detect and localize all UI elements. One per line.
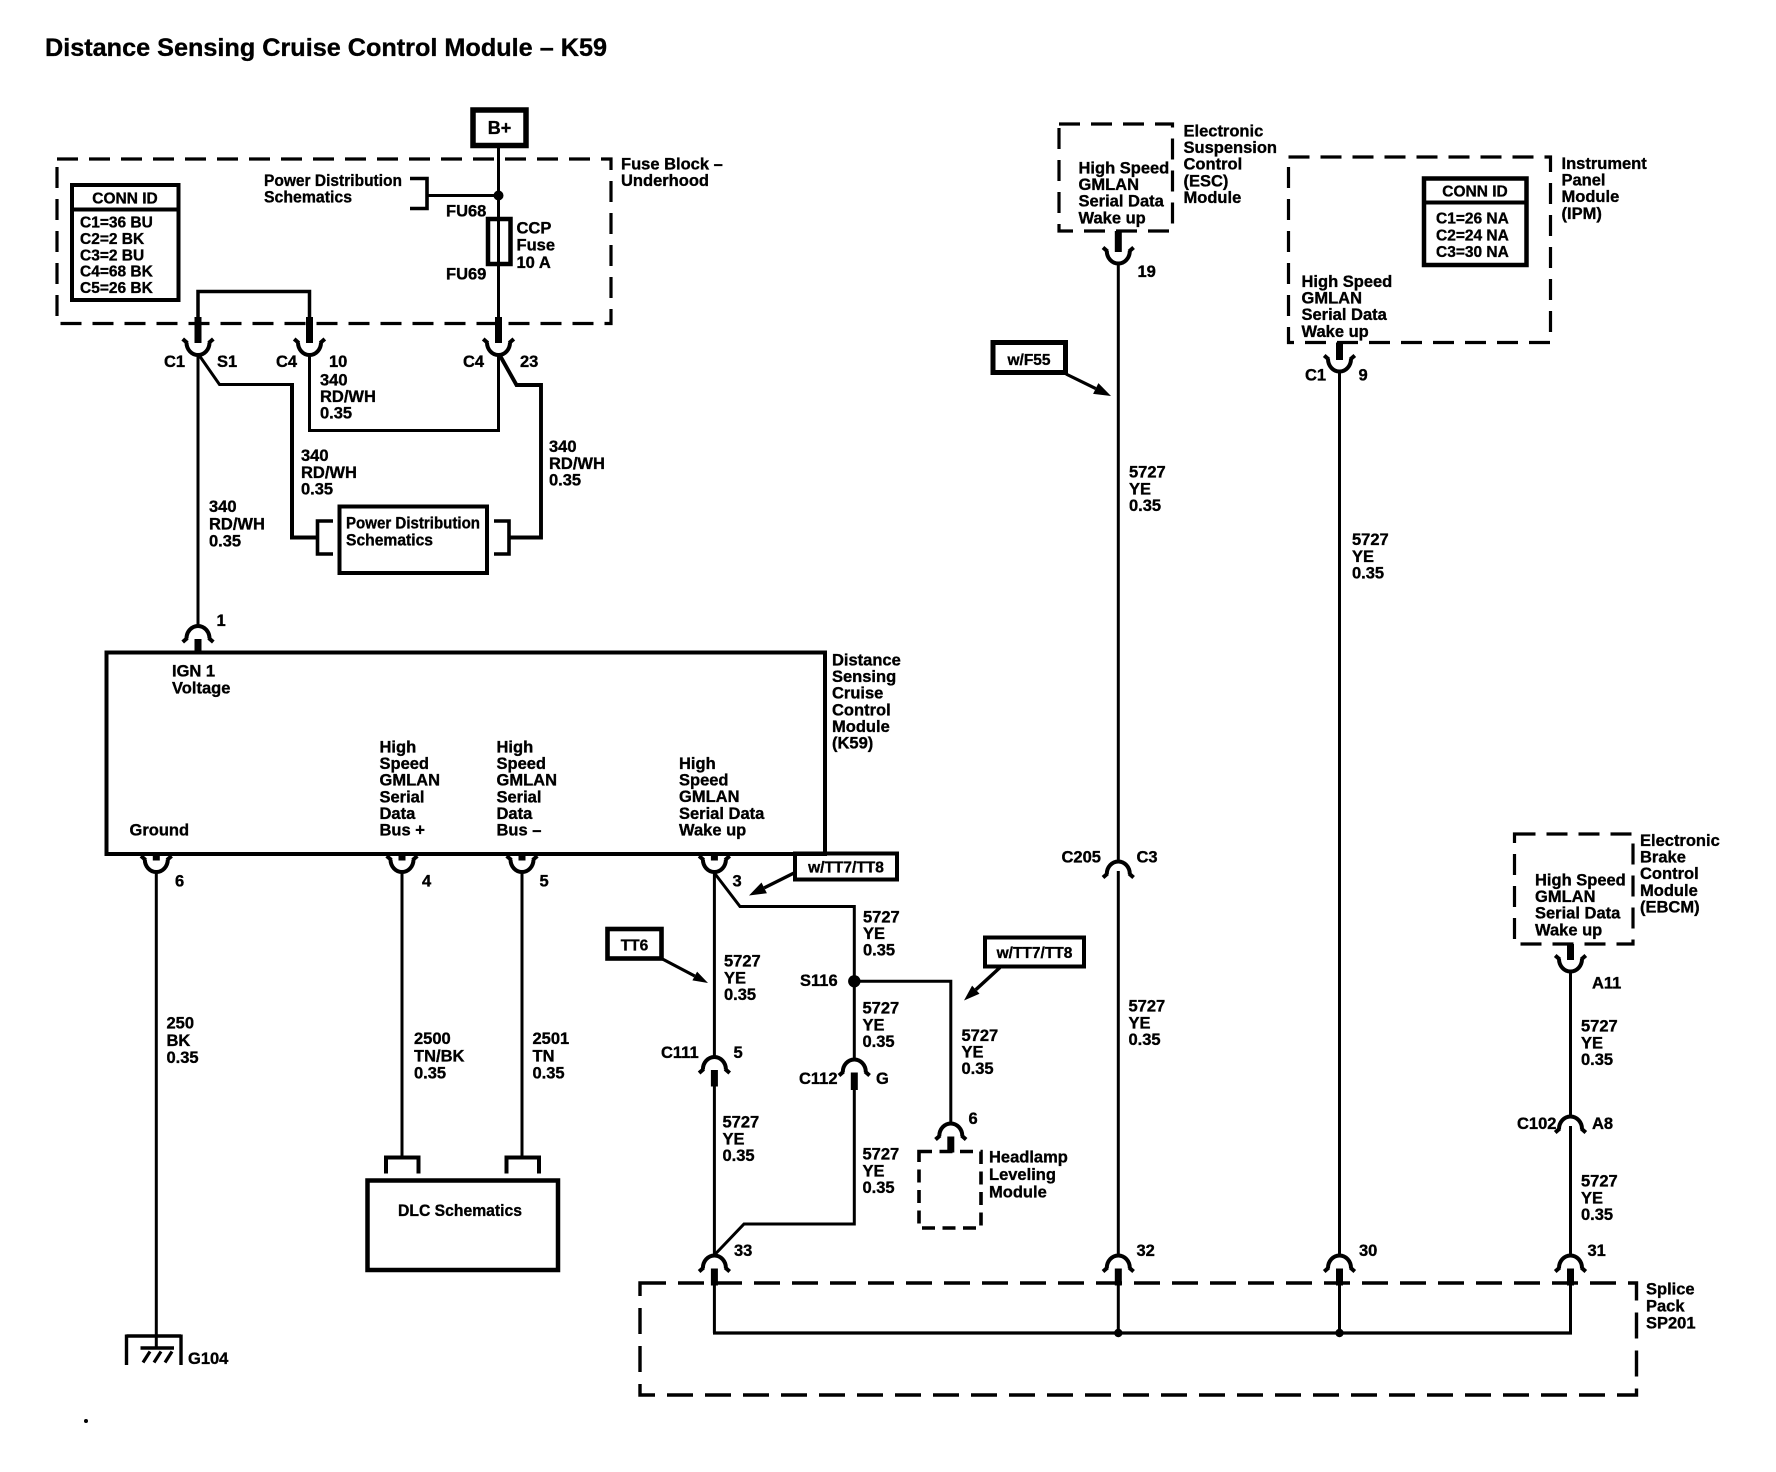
wire label 5727 YE 0.35 (below C102) [1581, 1173, 1618, 1225]
wire S116 to C112 [853, 981, 856, 1060]
svg-text:YE: YE [1129, 1014, 1151, 1032]
svg-text:High: High [679, 755, 716, 773]
svg-text:Bus +: Bus + [380, 822, 425, 840]
wire C1 to pin 1 [197, 356, 200, 628]
svg-text:Wake up: Wake up [1535, 921, 1602, 939]
stray mark [84, 1419, 88, 1423]
pin 1 connector [183, 612, 226, 652]
EBCM pin A11 connector [1555, 944, 1621, 993]
svg-text:A8: A8 [1592, 1115, 1613, 1133]
svg-text:YE: YE [1581, 1034, 1603, 1052]
pin 5 connector [507, 854, 549, 891]
svg-text:Voltage: Voltage [172, 680, 230, 698]
svg-text:Serial Data: Serial Data [1535, 905, 1621, 923]
svg-text:GMLAN: GMLAN [380, 772, 441, 790]
wire label 5727 YE 0.35 (EBCM wire) [1581, 1018, 1618, 1070]
svg-text:YE: YE [1352, 548, 1374, 566]
svg-text:RD/WH: RD/WH [549, 455, 605, 473]
wire label 2501 TN 0.35 [533, 1030, 570, 1083]
wire pin 5 to DLC [521, 872, 524, 1158]
wire EBCM A11 to C102 [1569, 972, 1572, 1117]
splice pin 30 [1324, 1242, 1377, 1286]
wire label 250 BK 0.35 [167, 1015, 199, 1068]
svg-text:0.35: 0.35 [962, 1060, 994, 1078]
svg-text:5: 5 [734, 1044, 743, 1062]
svg-text:Serial Data: Serial Data [1302, 306, 1388, 324]
svg-text:5727: 5727 [962, 1027, 999, 1045]
svg-text:Leveling: Leveling [989, 1166, 1056, 1184]
svg-text:(K59): (K59) [832, 735, 873, 753]
svg-text:0.35: 0.35 [1581, 1051, 1613, 1069]
svg-text:High: High [497, 739, 534, 757]
fuse block label [621, 156, 723, 191]
ESC module side label [1184, 123, 1278, 207]
svg-text:5727: 5727 [863, 1000, 900, 1018]
svg-text:19: 19 [1138, 263, 1156, 281]
splice pin 33 [699, 1242, 752, 1286]
svg-text:0.35: 0.35 [1581, 1206, 1613, 1224]
wire bracket to fuse feed [427, 194, 499, 197]
svg-text:Instrument: Instrument [1562, 155, 1648, 173]
svg-text:Splice: Splice [1646, 1281, 1695, 1299]
svg-text:GMLAN: GMLAN [679, 788, 740, 806]
svg-text:Module: Module [1184, 189, 1242, 207]
svg-text:Serial Data: Serial Data [679, 805, 765, 823]
svg-text:S1: S1 [217, 353, 237, 371]
IPM module side label [1562, 155, 1648, 223]
svg-text:YE: YE [1581, 1189, 1603, 1207]
connector C4 pin 10 [276, 317, 347, 371]
svg-text:C112: C112 [799, 1070, 838, 1088]
svg-text:Sensing: Sensing [832, 668, 896, 686]
svg-text:0.35: 0.35 [1129, 1031, 1161, 1049]
svg-text:C2=2 BK: C2=2 BK [80, 231, 145, 248]
svg-text:A11: A11 [1592, 975, 1621, 993]
svg-text:2501: 2501 [533, 1030, 570, 1048]
headlamp leveling module label [989, 1149, 1068, 1202]
svg-text:1: 1 [217, 612, 226, 630]
svg-text:Module: Module [832, 718, 890, 736]
svg-text:Module: Module [1562, 188, 1620, 206]
svg-text:Fuse Block –: Fuse Block – [621, 156, 723, 174]
wire pin 3 to C111 [713, 872, 716, 1058]
svg-text:Module: Module [989, 1184, 1047, 1202]
svg-text:0.35: 0.35 [863, 1033, 895, 1051]
svg-text:0.35: 0.35 [1352, 565, 1384, 583]
svg-text:Data: Data [497, 805, 534, 823]
fuse block underhood dashed box [57, 159, 611, 324]
svg-text:Control: Control [1640, 865, 1699, 883]
pin 6 connector [141, 854, 184, 891]
svg-text:G104: G104 [188, 1350, 229, 1368]
svg-text:C1=26 NA: C1=26 NA [1436, 211, 1509, 228]
svg-text:GMLAN: GMLAN [1079, 176, 1140, 194]
wire label 340 RD/WH 0.35 (right branch) [549, 438, 605, 490]
junction dot splice 32 [1114, 1329, 1122, 1337]
svg-text:5727: 5727 [1129, 464, 1166, 482]
svg-text:0.35: 0.35 [863, 1179, 895, 1197]
junction dot splice 30 [1335, 1329, 1343, 1337]
svg-text:Fuse: Fuse [517, 237, 556, 255]
svg-text:31: 31 [1588, 1242, 1606, 1260]
K59 pin labels bottom [130, 739, 766, 840]
wire label 5727 YE 0.35 (below C205) [1129, 998, 1166, 1050]
wire label 5727 YE 0.35 (below C111) [723, 1114, 760, 1166]
svg-text:10: 10 [329, 353, 347, 371]
svg-text:Distance Sensing Cruise Contro: Distance Sensing Cruise Control Module –… [45, 34, 607, 62]
svg-text:C3=30 NA: C3=30 NA [1436, 244, 1509, 261]
svg-text:C4=68 BK: C4=68 BK [80, 264, 154, 281]
svg-text:Suspension: Suspension [1184, 139, 1278, 157]
arrow from w/TT7/TT8 callout 1 [749, 873, 795, 896]
svg-text:Speed: Speed [679, 772, 729, 790]
svg-text:Ground: Ground [130, 822, 190, 840]
arrow from w/F55 callout [1066, 374, 1111, 396]
svg-text:Speed: Speed [497, 755, 547, 773]
svg-text:0.35: 0.35 [1129, 497, 1161, 515]
wire label 340 RD/WH 0.35 (left branch) [301, 447, 357, 499]
splice pin 31 [1555, 1242, 1606, 1286]
svg-text:w/TT7/TT8: w/TT7/TT8 [807, 860, 884, 877]
w/F55 callout box [993, 343, 1066, 373]
svg-text:C205: C205 [1062, 849, 1101, 867]
svg-text:5727: 5727 [863, 1146, 900, 1164]
connector C111 pin 5 [661, 1044, 743, 1087]
svg-text:(ESC): (ESC) [1184, 172, 1229, 190]
svg-text:YE: YE [863, 1162, 885, 1180]
svg-text:Wake up: Wake up [1079, 209, 1146, 227]
svg-text:GMLAN: GMLAN [497, 772, 558, 790]
svg-text:C3=2 BU: C3=2 BU [80, 247, 144, 264]
wire pin 4 to DLC [401, 872, 404, 1158]
connector C102 pin A8 [1517, 1115, 1613, 1133]
svg-text:340: 340 [209, 498, 237, 516]
svg-text:6: 6 [175, 873, 184, 891]
wire C111 to splice pin 33 [713, 1087, 716, 1257]
svg-text:33: 33 [734, 1242, 752, 1260]
svg-text:2500: 2500 [414, 1030, 451, 1048]
wire C4/23 branch to power distribution [501, 357, 542, 538]
connector C205 pin C3 [1062, 849, 1158, 878]
svg-text:0.35: 0.35 [167, 1049, 199, 1067]
wire C1/S1 branch to power distribution [200, 357, 318, 538]
junction dot at fuse feed [494, 191, 504, 201]
svg-text:23: 23 [520, 353, 538, 371]
arrow from TT6 callout [662, 959, 709, 984]
svg-text:(EBCM): (EBCM) [1640, 898, 1700, 916]
svg-text:10 A: 10 A [517, 254, 551, 272]
fuse FU68/FU69 CCP 10A [446, 203, 555, 284]
svg-text:Pack: Pack [1646, 1298, 1685, 1316]
pin 3 connector [699, 854, 742, 891]
svg-text:RD/WH: RD/WH [209, 515, 265, 533]
svg-text:TT6: TT6 [621, 938, 649, 955]
svg-text:Data: Data [380, 805, 417, 823]
pin 4 connector [387, 854, 432, 891]
splice pack SP201 dashed box [640, 1283, 1637, 1395]
svg-text:0.35: 0.35 [724, 986, 756, 1004]
svg-text:FU68: FU68 [446, 203, 486, 221]
connector C112 pin G [799, 1059, 889, 1090]
CONN ID table (fuse block) [72, 185, 179, 300]
wire label 5727 YE 0.35 (pin 3 wire) [724, 953, 761, 1005]
wire C102 to splice pin 31 [1569, 1126, 1572, 1256]
svg-text:FU69: FU69 [446, 266, 486, 284]
svg-text:C4: C4 [463, 353, 485, 371]
svg-text:0.35: 0.35 [320, 404, 352, 422]
svg-text:340: 340 [301, 447, 329, 465]
svg-text:C111: C111 [661, 1044, 699, 1062]
svg-text:S116: S116 [800, 972, 838, 990]
svg-text:5727: 5727 [1352, 531, 1389, 549]
splice pack label [1646, 1281, 1696, 1333]
svg-text:5727: 5727 [1581, 1018, 1618, 1036]
svg-text:Headlamp: Headlamp [989, 1149, 1068, 1167]
svg-text:9: 9 [1359, 367, 1368, 385]
svg-text:32: 32 [1137, 1242, 1155, 1260]
svg-text:G: G [876, 1070, 889, 1088]
ground symbol G104 [127, 1335, 230, 1369]
svg-text:Control: Control [1184, 156, 1243, 174]
IPM CONN ID table [1424, 179, 1527, 266]
wire label 5727 YE 0.35 (branch to S116) [863, 909, 900, 960]
svg-text:YE: YE [1129, 480, 1151, 498]
svg-text:Wake up: Wake up [1302, 323, 1369, 341]
svg-text:YE: YE [723, 1130, 745, 1148]
splice bus wire [713, 1286, 1572, 1334]
svg-text:Electronic: Electronic [1640, 832, 1720, 850]
svg-text:w/F55: w/F55 [1006, 352, 1050, 369]
svg-text:CONN ID: CONN ID [1442, 184, 1507, 201]
wire C4 pin10 to C4 pin23 link [310, 356, 499, 431]
svg-text:5727: 5727 [1129, 998, 1166, 1016]
svg-text:Cruise: Cruise [832, 685, 883, 703]
svg-text:Serial: Serial [380, 788, 425, 806]
ESC module inner label [1079, 160, 1170, 228]
wire IPM pin 9 to splice pin 30 [1338, 372, 1341, 1257]
svg-text:Underhood: Underhood [621, 172, 709, 190]
svg-text:5727: 5727 [863, 909, 900, 927]
svg-text:SP201: SP201 [1646, 1315, 1696, 1333]
wire label 5727 YE 0.35 (headlamp branch) [962, 1027, 999, 1078]
svg-text:Power Distribution: Power Distribution [264, 172, 402, 190]
svg-text:340: 340 [549, 438, 577, 456]
svg-text:DLC Schematics: DLC Schematics [398, 1202, 522, 1220]
svg-text:Control: Control [832, 701, 891, 719]
connector C4 pin 23 [463, 317, 538, 371]
svg-text:5: 5 [540, 873, 549, 891]
wire pin 6 to ground [155, 872, 158, 1348]
svg-text:Serial: Serial [497, 788, 542, 806]
svg-text:B+: B+ [488, 118, 512, 138]
svg-text:CONN ID: CONN ID [92, 191, 157, 208]
svg-text:5727: 5727 [1581, 1173, 1618, 1191]
svg-text:RD/WH: RD/WH [301, 464, 357, 482]
svg-text:C1: C1 [1305, 367, 1326, 385]
svg-text:C5=26 BK: C5=26 BK [80, 280, 154, 297]
wire label 340 RD/WH 0.35 (C1 wire) [209, 498, 265, 551]
arrow from w/TT7/TT8 callout 2 [964, 968, 1000, 1001]
ESC pin 19 connector [1103, 231, 1156, 281]
wire pin 3 branch to S116 [714, 873, 854, 981]
svg-text:High: High [380, 739, 417, 757]
TT6 callout box [608, 929, 662, 959]
svg-text:YE: YE [724, 969, 746, 987]
svg-text:4: 4 [422, 873, 432, 891]
svg-text:High Speed: High Speed [1079, 160, 1170, 178]
svg-text:GMLAN: GMLAN [1535, 888, 1596, 906]
svg-text:RD/WH: RD/WH [320, 388, 376, 406]
svg-text:5727: 5727 [723, 1114, 760, 1132]
svg-text:YE: YE [863, 1016, 885, 1034]
connector C1 pin S1 [164, 317, 237, 371]
svg-text:Speed: Speed [380, 755, 430, 773]
svg-text:0.35: 0.35 [863, 941, 895, 959]
DLC schematics box [368, 1158, 559, 1271]
splice S116 [800, 972, 861, 990]
wire label 5727 YE 0.35 (S116 to C112) [863, 1000, 900, 1052]
svg-text:0.35: 0.35 [209, 533, 241, 551]
svg-text:CCP: CCP [517, 220, 552, 238]
power distribution schematics reference (top) [264, 172, 427, 209]
svg-text:C3: C3 [1137, 849, 1158, 867]
title text [45, 34, 607, 62]
svg-text:High Speed: High Speed [1302, 273, 1393, 291]
svg-text:Panel: Panel [1562, 172, 1606, 190]
wire S116 to headlamp branch [854, 981, 951, 1124]
power distribution schematics box [318, 507, 510, 574]
K59 module side label [832, 652, 901, 753]
IPM module inner label [1302, 273, 1393, 341]
ESC module dashed box [1059, 124, 1173, 231]
svg-text:IGN 1: IGN 1 [172, 663, 215, 681]
svg-text:0.35: 0.35 [414, 1065, 446, 1083]
wire label 5727 YE 0.35 (ESC wire) [1129, 464, 1166, 516]
svg-text:Distance: Distance [832, 652, 901, 670]
svg-text:0.35: 0.35 [533, 1065, 565, 1083]
IPM pin 9 connector [1305, 343, 1368, 385]
svg-text:TN: TN [533, 1047, 555, 1065]
svg-text:Wake up: Wake up [679, 821, 746, 839]
svg-text:250: 250 [167, 1015, 195, 1033]
headlamp leveling module dashed box [919, 1152, 981, 1229]
wire label 5727 YE 0.35 (below C112) [863, 1146, 900, 1198]
pin 1 label IGN 1 Voltage [172, 663, 230, 698]
svg-text:C102: C102 [1517, 1115, 1556, 1133]
svg-text:Brake: Brake [1640, 849, 1686, 867]
svg-text:30: 30 [1359, 1242, 1377, 1260]
jumper wire C1 to C4 inside fuse block [198, 292, 310, 343]
svg-text:0.35: 0.35 [723, 1147, 755, 1165]
svg-text:3: 3 [733, 873, 742, 891]
svg-text:Serial Data: Serial Data [1079, 193, 1165, 211]
svg-text:Bus –: Bus – [497, 822, 542, 840]
wire label 5727 YE 0.35 (IPM wire) [1352, 531, 1389, 583]
svg-text:TN/BK: TN/BK [414, 1047, 464, 1065]
EBCM module inner label [1535, 872, 1626, 940]
B+ battery feed symbol [473, 110, 526, 146]
IPM module dashed box [1289, 157, 1551, 343]
svg-text:(IPM): (IPM) [1562, 205, 1602, 223]
K59 module box [107, 653, 826, 855]
EBCM module dashed box [1515, 834, 1634, 944]
splice pin 32 [1103, 1242, 1155, 1286]
svg-text:YE: YE [962, 1044, 984, 1062]
svg-text:C1: C1 [164, 353, 185, 371]
EBCM module side label [1640, 832, 1720, 916]
svg-text:C4: C4 [276, 353, 298, 371]
svg-text:6: 6 [969, 1110, 978, 1128]
wire C205 to splice pin 32 [1117, 871, 1120, 1256]
svg-text:C1=36 BU: C1=36 BU [80, 215, 153, 232]
svg-text:0.35: 0.35 [301, 481, 333, 499]
svg-text:Module: Module [1640, 882, 1698, 900]
svg-text:Electronic: Electronic [1184, 123, 1264, 141]
wire B+ to fuse block [497, 146, 500, 331]
svg-text:High Speed: High Speed [1535, 872, 1626, 890]
svg-text:w/TT7/TT8: w/TT7/TT8 [996, 945, 1073, 962]
svg-text:C2=24 NA: C2=24 NA [1436, 227, 1509, 244]
svg-text:0.35: 0.35 [549, 472, 581, 490]
svg-text:BK: BK [167, 1032, 191, 1050]
svg-text:Schematics: Schematics [264, 189, 352, 207]
svg-text:Schematics: Schematics [346, 531, 433, 549]
wire C112 to splice pin 33 [714, 1090, 854, 1255]
svg-text:5727: 5727 [724, 953, 761, 971]
headlamp pin 6 connector [936, 1110, 978, 1153]
svg-text:340: 340 [320, 372, 348, 390]
svg-text:Power Distribution: Power Distribution [346, 515, 480, 533]
svg-text:GMLAN: GMLAN [1302, 290, 1363, 308]
wire label 2500 TN/BK 0.35 [414, 1030, 464, 1083]
w/TT7/TT8 callout box 2 [985, 938, 1084, 967]
wire ESC pin 19 to C205 [1117, 264, 1120, 862]
wire label 340 RD/WH 0.35 (C4 pin 10) [320, 372, 376, 423]
w/TT7/TT8 callout box 1 [795, 854, 897, 880]
svg-text:YE: YE [863, 925, 885, 943]
